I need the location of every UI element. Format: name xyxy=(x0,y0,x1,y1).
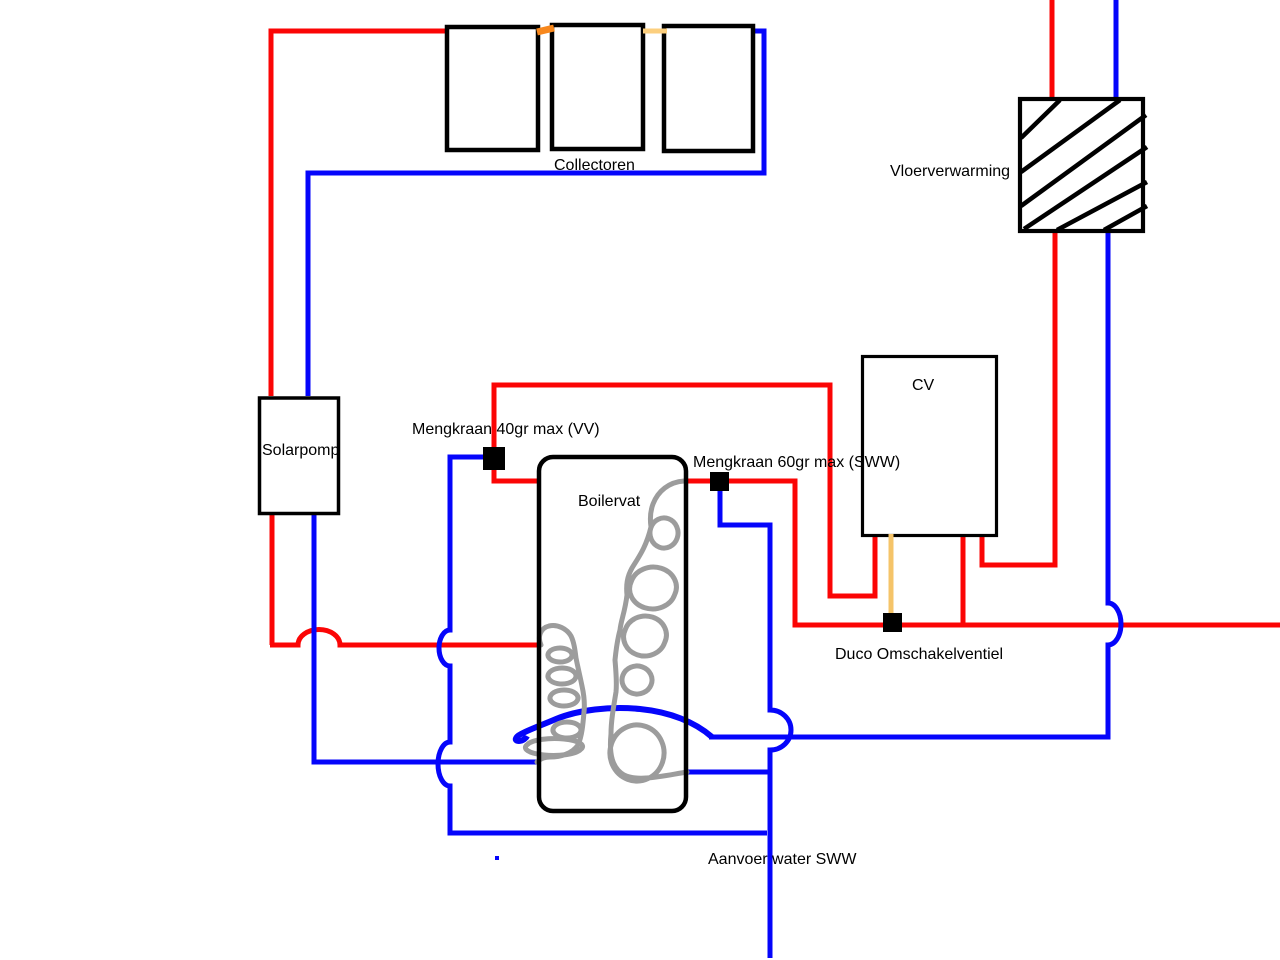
svg-text:Aanvoer water SWW: Aanvoer water SWW xyxy=(708,851,857,868)
svg-text:Vloerverwarming: Vloerverwarming xyxy=(890,163,1010,180)
svg-text:Duco Omschakelventiel: Duco Omschakelventiel xyxy=(835,646,1003,663)
svg-text:Mengkraan 40gr max (VV): Mengkraan 40gr max (VV) xyxy=(412,421,600,438)
svg-text:Boilervat: Boilervat xyxy=(578,493,641,510)
svg-text:Solarpomp: Solarpomp xyxy=(262,442,339,459)
svg-text:CV: CV xyxy=(912,377,935,394)
svg-text:Mengkraan 60gr max (SWW): Mengkraan 60gr max (SWW) xyxy=(693,454,900,471)
svg-text:Collectoren: Collectoren xyxy=(554,157,635,174)
